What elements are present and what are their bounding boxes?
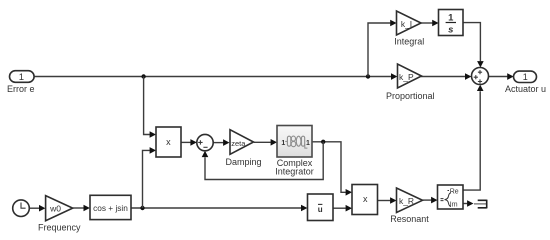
svg-text:Frequency: Frequency [38, 223, 81, 233]
subsystem Complex Integrator [277, 126, 312, 158]
node J3 on cos+jsin line [140, 206, 144, 210]
svg-text:1: 1 [523, 72, 528, 82]
wire: w0 to cos+jsin [73, 205, 90, 212]
wire: branch up to k_I [368, 20, 397, 77]
product block 2 (x) [352, 185, 378, 215]
wire: k_I to integrator 1/s [421, 20, 439, 27]
clock block [13, 200, 30, 217]
svg-text:k_R: k_R [399, 196, 414, 206]
wire: clock to w0 [29, 205, 45, 212]
wire: error main line [34, 73, 397, 80]
node J4 on integrator output [321, 140, 325, 144]
svg-text:k_P: k_P [399, 72, 414, 82]
wire: feedback down-left-up into sum2 minus [202, 142, 324, 180]
svg-text:u: u [318, 205, 323, 214]
node J2 on error line [366, 74, 370, 78]
svg-text:Resonant: Resonant [390, 214, 429, 224]
wire: sum output to outport [489, 73, 514, 80]
svg-text:Error e: Error e [7, 84, 35, 94]
outport Out1 Actuator u [514, 71, 537, 82]
svg-text:Integrator: Integrator [275, 166, 314, 176]
wire: k_P output to sum [421, 73, 471, 80]
svg-text:1: 1 [306, 140, 310, 147]
wire: complex integrator output right then down to product2 [312, 142, 352, 196]
wire: Im output to terminator [463, 200, 474, 207]
block cos + jsin [90, 195, 131, 219]
svg-text:x: x [166, 137, 171, 147]
svg-text:s: s [448, 25, 453, 36]
block complex to real-imag [438, 185, 464, 209]
gain k_P Proportional [398, 64, 422, 88]
wire: product1 to sum2 [181, 139, 197, 146]
wire: 1/s output down to sum [463, 23, 484, 68]
sum block 2 (+ -) damping loop [197, 134, 213, 150]
gain k_I Integral [397, 11, 422, 35]
wire: branch up to product second input [143, 147, 157, 208]
node J1 on error line [141, 74, 145, 78]
conjugate block u-bar [308, 194, 334, 221]
terminator block [474, 200, 487, 209]
gain w0 Frequency [46, 196, 73, 221]
gain k_R Resonant [397, 188, 423, 213]
svg-text:Re: Re [450, 188, 459, 195]
wire: k_R to complex-to-real [423, 197, 438, 204]
wire: conj to product2 [333, 205, 352, 212]
svg-text:Actuator u: Actuator u [505, 84, 546, 94]
wire: zeta to complex integrator [254, 139, 277, 146]
svg-text:zeta: zeta [231, 139, 246, 148]
sum block 1 (+ + +) output [472, 68, 489, 85]
svg-text:Proportional: Proportional [386, 91, 435, 101]
svg-text:1: 1 [281, 140, 285, 147]
svg-text:Damping: Damping [225, 157, 261, 167]
integrator block 1/s [439, 10, 464, 36]
gain zeta Damping [230, 130, 254, 155]
wire: Re output up to sum [463, 85, 484, 191]
svg-text:x: x [363, 194, 368, 204]
svg-text:cos + jsin: cos + jsin [93, 203, 128, 213]
svg-text:Integral: Integral [394, 36, 424, 46]
svg-text:Im: Im [450, 201, 458, 208]
svg-text:w0: w0 [49, 203, 61, 213]
wire: cos+jsin output to conj block [131, 205, 307, 212]
wire: sum2 to zeta [213, 139, 229, 146]
wire: product2 to k_R [378, 197, 397, 204]
svg-text:1: 1 [448, 12, 454, 23]
product block 1 (x) [156, 127, 181, 157]
wire: error branch down to product [144, 77, 156, 138]
inport In1 Error e [10, 71, 35, 83]
svg-text:k_I: k_I [401, 19, 412, 29]
svg-text:1: 1 [19, 72, 24, 83]
